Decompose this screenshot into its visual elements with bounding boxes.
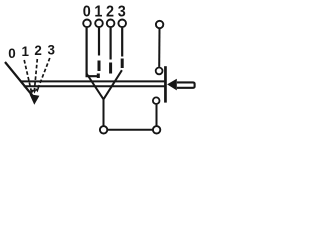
svg-text:2: 2	[106, 3, 114, 21]
switch S1a dashed position 3	[37, 58, 50, 91]
switch S1a wiper arrowhead	[30, 94, 40, 105]
svg-text:3: 3	[118, 3, 126, 21]
wire X1 vertical with dashed end	[98, 28, 100, 56]
switch S1b contact arm left	[86, 73, 103, 99]
plug insertion arrow tail	[177, 82, 195, 87]
terminal circle X0	[83, 20, 91, 28]
plug insertion arrowhead	[167, 79, 177, 91]
terminal circle X3	[118, 20, 126, 28]
wire X2 vertical with dashed end	[109, 28, 111, 60]
tiny arrowhead position 1	[30, 89, 34, 94]
switch S1a labels 0 1 2 3	[8, 42, 55, 61]
switch S1b contact arm right	[104, 70, 122, 99]
svg-text:1: 1	[21, 44, 29, 59]
bus wire upper	[20, 80, 164, 82]
wire X3 vertical with dashed end	[121, 28, 123, 57]
terminal circle bottom right	[153, 126, 160, 133]
wire right column upper	[158, 29, 160, 67]
jack contact circle upper	[156, 68, 163, 75]
terminal circle X2	[107, 20, 115, 28]
terminal circle bottom left	[100, 126, 107, 133]
svg-text:0: 0	[83, 3, 91, 21]
wire right column lower	[156, 105, 158, 126]
wire X0 vertical	[87, 28, 99, 77]
switch S1b labels 0 1 2 3	[83, 3, 126, 21]
wire bottom horizontal	[108, 129, 153, 131]
jack plug bar	[164, 66, 167, 102]
bus wire lower	[24, 85, 165, 87]
tiny arrowhead position 3	[35, 88, 39, 92]
terminal circle X1	[95, 20, 103, 28]
svg-text:0: 0	[8, 46, 15, 61]
switch S1a dashed position 1	[24, 60, 31, 93]
switch S1a dashed position 2	[34, 59, 37, 93]
wire from S1b common down	[103, 99, 105, 126]
svg-text:3: 3	[47, 42, 54, 57]
svg-text:1: 1	[94, 3, 103, 21]
terminal circle top right	[156, 21, 163, 28]
switch S1a wiper line position 0	[5, 62, 33, 97]
jack contact circle lower	[153, 97, 160, 104]
tiny arrowhead position 2	[33, 90, 37, 94]
svg-text:2: 2	[34, 43, 41, 58]
